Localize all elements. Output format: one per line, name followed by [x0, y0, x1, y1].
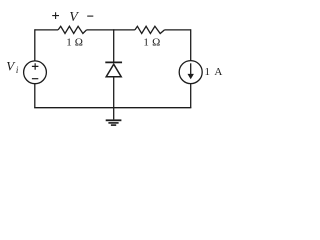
svg-text:Ω: Ω: [75, 37, 83, 49]
plus sign inside Vi: [32, 63, 39, 69]
wire top-left segment: [35, 29, 58, 31]
wire right vertical upper: [190, 29, 192, 60]
ground bar 1: [106, 119, 122, 121]
resistor R2: [135, 26, 165, 33]
svg-text:V: V: [69, 10, 79, 25]
wire bottom: [34, 107, 191, 109]
ground stub: [113, 108, 115, 120]
wire left vertical lower: [34, 84, 36, 108]
diode D1 triangle: [106, 64, 121, 77]
voltage source Vi: [24, 61, 47, 84]
svg-text:1: 1: [143, 37, 149, 49]
svg-text:1: 1: [205, 66, 211, 78]
ground bar 3: [111, 124, 116, 126]
arrow inside I1: [190, 63, 192, 75]
value label 1 Ohm for R1: [66, 37, 83, 49]
wire left vertical upper: [34, 29, 36, 61]
label V above R1: [69, 10, 79, 25]
label Vi: [6, 58, 19, 75]
minus sign inside Vi: [32, 78, 38, 80]
resistor R1: [58, 26, 86, 33]
svg-text:A: A: [214, 66, 222, 78]
label 1 A: [205, 66, 223, 78]
wire middle vertical lower: [113, 77, 115, 108]
wire top-right segment: [165, 29, 191, 31]
label + V - above R1: [52, 12, 93, 19]
wire middle vertical upper (to diode cathode): [113, 29, 115, 62]
svg-text:Ω: Ω: [152, 37, 160, 49]
svg-text:1: 1: [66, 37, 72, 49]
arrowhead of I1: [188, 74, 194, 79]
wire top-middle segment: [87, 29, 135, 31]
value label 1 Ohm for R2: [143, 37, 160, 49]
current source I1: [179, 61, 202, 84]
diode D1 cathode bar: [105, 61, 122, 63]
wire right vertical lower: [190, 83, 192, 107]
ground bar 2: [108, 122, 118, 124]
